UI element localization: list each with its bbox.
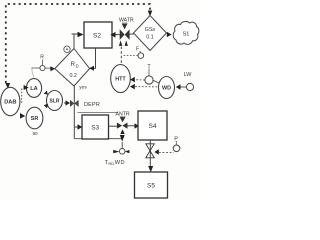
svg-text:S2: S2 [93,33,101,40]
svg-text:0.1: 0.1 [146,35,154,41]
svg-text:D: D [76,64,79,69]
svg-text:90: 90 [32,131,38,136]
svg-text:0.2: 0.2 [69,73,77,79]
svg-text:GS≥: GS≥ [145,27,156,33]
svg-text:ANTR: ANTR [116,111,130,117]
svg-text:WD: WD [115,160,125,166]
svg-text:SR: SR [31,116,39,122]
svg-text:DEPR: DEPR [84,102,100,108]
svg-text:WD: WD [162,86,171,92]
svg-text:WATR: WATR [119,17,134,23]
svg-text:S1: S1 [183,32,190,38]
svg-text:RD: RD [108,161,114,166]
svg-text:S3: S3 [91,125,99,132]
svg-text:yes: yes [79,86,87,91]
svg-text:LA: LA [30,86,37,92]
svg-text:S4: S4 [149,123,157,130]
svg-text:LW: LW [184,72,193,78]
svg-text:SLR: SLR [50,99,60,105]
svg-text:DAB: DAB [4,100,16,106]
svg-text:S5: S5 [147,183,155,190]
svg-text:HTT: HTT [115,77,126,83]
svg-text:F: F [136,46,139,52]
